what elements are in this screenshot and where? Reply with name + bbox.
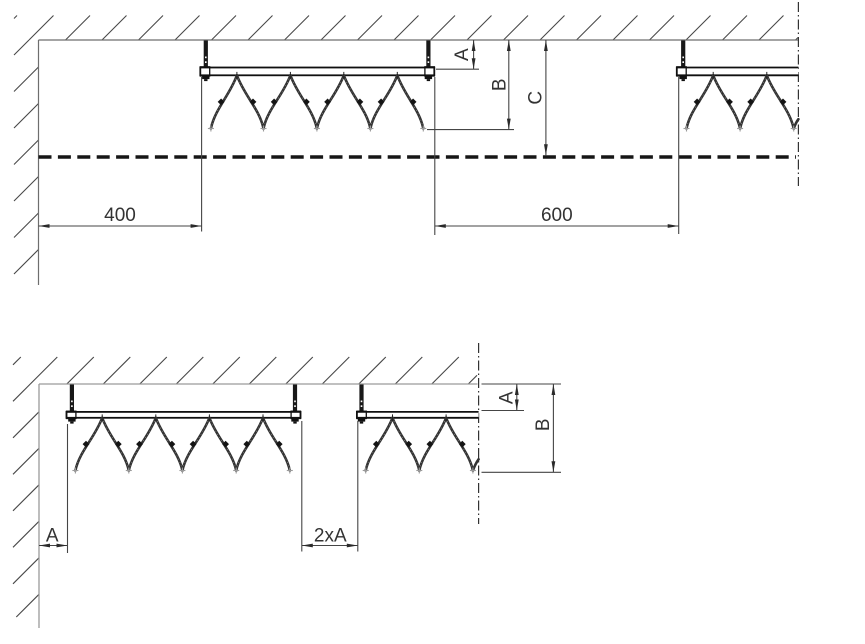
svg-text:A: A xyxy=(46,525,59,546)
extension line at bar top level right (dim A) xyxy=(482,410,525,412)
dimension 600 xyxy=(435,205,679,228)
wire texture of spike strip S1 (upper view) xyxy=(211,75,423,128)
extension line at S3 right edge xyxy=(301,421,303,552)
extension line at S3 left edge xyxy=(67,424,69,553)
mounting bar of spike strip S3 (lower view) xyxy=(67,412,301,418)
spike strip S2 (upper view, cut) xyxy=(677,41,799,132)
spike tip marks of spike strip S4 (lower view, cut) xyxy=(363,468,476,474)
ceiling hatch (upper view) xyxy=(14,16,798,41)
svg-text:600: 600 xyxy=(541,205,573,226)
dimension B (upper view) xyxy=(489,40,510,130)
extension line at S1 right edge xyxy=(434,77,436,235)
end clamp and nut of spike strip S4 (lower view, cut) at x=362 xyxy=(357,411,366,423)
hanger rod of spike strip S3 (lower view) at x=72 xyxy=(70,385,74,414)
spike strip S1 (upper view) xyxy=(200,41,434,132)
extension line at S2 left edge xyxy=(678,77,680,234)
svg-text:400: 400 xyxy=(104,205,136,226)
wire texture of spike strip S3 (lower view) xyxy=(75,418,289,471)
wire crossing dots of spike strip S1 (upper view) xyxy=(218,99,417,106)
wire crossing dots of spike strip S4 (lower view, cut) xyxy=(373,441,466,448)
spike strip S4 (lower view, cut) xyxy=(357,385,479,474)
extension line at S1 left edge xyxy=(201,77,203,232)
end clamp and nut of spike strip S3 (lower view) at x=295 xyxy=(291,411,300,423)
extension line at S4 left edge xyxy=(357,421,359,552)
hanger rod of spike strip S2 (upper view, cut) at x=683 xyxy=(681,41,685,69)
extension line at bar top level (dim A) xyxy=(436,68,479,70)
dimension A (wall gap) xyxy=(39,525,68,547)
hanger rod of spike strip S3 (lower view) at x=295 xyxy=(293,385,297,414)
peak ticks of spike strip S1 (upper view) xyxy=(237,72,397,79)
dimension A (upper view) xyxy=(452,40,475,69)
wire crossing dots of spike strip S2 (upper view, cut) xyxy=(694,99,787,106)
dimension 400 xyxy=(39,205,202,228)
centerline dash-dot (upper view) xyxy=(797,2,799,186)
wall hatch (upper view) xyxy=(14,40,39,274)
svg-text:A: A xyxy=(497,391,518,404)
dimension B (lower view) xyxy=(533,384,555,472)
peak ticks of spike strip S4 (lower view, cut) xyxy=(393,414,447,421)
mounting bar of spike strip S4 (lower view, cut) xyxy=(357,412,479,418)
spike tip marks of spike strip S2 (upper view, cut) xyxy=(684,126,797,132)
centerline dash-dot (lower view) xyxy=(478,343,480,524)
extension line at ceiling level right (dims A,B) xyxy=(482,383,562,385)
wire texture of spike strip S2 (upper view, cut) xyxy=(687,75,794,128)
spike strip S3 (lower view) xyxy=(67,385,301,474)
wall line (lower view) xyxy=(38,384,40,628)
extension line at spike tip level right (dim B) xyxy=(482,471,562,473)
hanger rod of spike strip S1 (upper view) at x=428 xyxy=(426,41,430,69)
dimension A (lower view) xyxy=(497,384,519,411)
mounting bar of spike strip S2 (upper view, cut) xyxy=(677,68,799,76)
peak ticks of spike strip S3 (lower view) xyxy=(102,414,263,421)
svg-text:B: B xyxy=(489,78,510,91)
dimension C (upper view) xyxy=(525,40,547,155)
svg-text:B: B xyxy=(533,418,554,431)
spike wires of spike strip S3 (lower view) xyxy=(75,418,289,471)
dimension 2xA (strip gap) xyxy=(302,525,358,547)
extension line at spike tip level (dim B) xyxy=(427,129,514,131)
spike wires of spike strip S4 (lower view, cut) xyxy=(366,418,479,471)
end clamp and nut of spike strip S2 (upper view, cut) at x=683 xyxy=(677,67,687,81)
peak ticks of spike strip S2 (upper view, cut) xyxy=(713,72,767,79)
mounting bar of spike strip S1 (upper view) xyxy=(200,68,434,76)
spike tip marks of spike strip S1 (upper view) xyxy=(208,126,426,132)
wall line (upper view) xyxy=(38,40,40,285)
svg-text:C: C xyxy=(525,91,546,105)
end clamp and nut of spike strip S1 (upper view) at x=206 xyxy=(200,67,209,81)
spike wires of spike strip S2 (upper view, cut) xyxy=(687,75,799,128)
flight-zone dashed line (upper view) xyxy=(39,155,797,158)
end clamp and nut of spike strip S1 (upper view) at x=428 xyxy=(425,67,435,81)
spike tip marks of spike strip S3 (lower view) xyxy=(72,468,292,474)
spike wires of spike strip S1 (upper view) xyxy=(211,75,423,128)
wire texture of spike strip S4 (lower view, cut) xyxy=(366,418,473,471)
wire crossing dots of spike strip S3 (lower view) xyxy=(83,441,283,448)
wall hatch (lower view) xyxy=(13,384,39,617)
ceiling line (upper view) xyxy=(39,39,799,41)
svg-text:2xA: 2xA xyxy=(314,525,347,546)
end clamp and nut of spike strip S3 (lower view) at x=72 xyxy=(67,411,76,423)
hanger rod of spike strip S4 (lower view, cut) at x=362 xyxy=(359,385,363,414)
ceiling line (lower view) xyxy=(39,383,478,385)
svg-text:A: A xyxy=(452,48,473,61)
hanger rod of spike strip S1 (upper view) at x=206 xyxy=(204,41,208,69)
ceiling hatch (lower view) xyxy=(13,357,477,384)
